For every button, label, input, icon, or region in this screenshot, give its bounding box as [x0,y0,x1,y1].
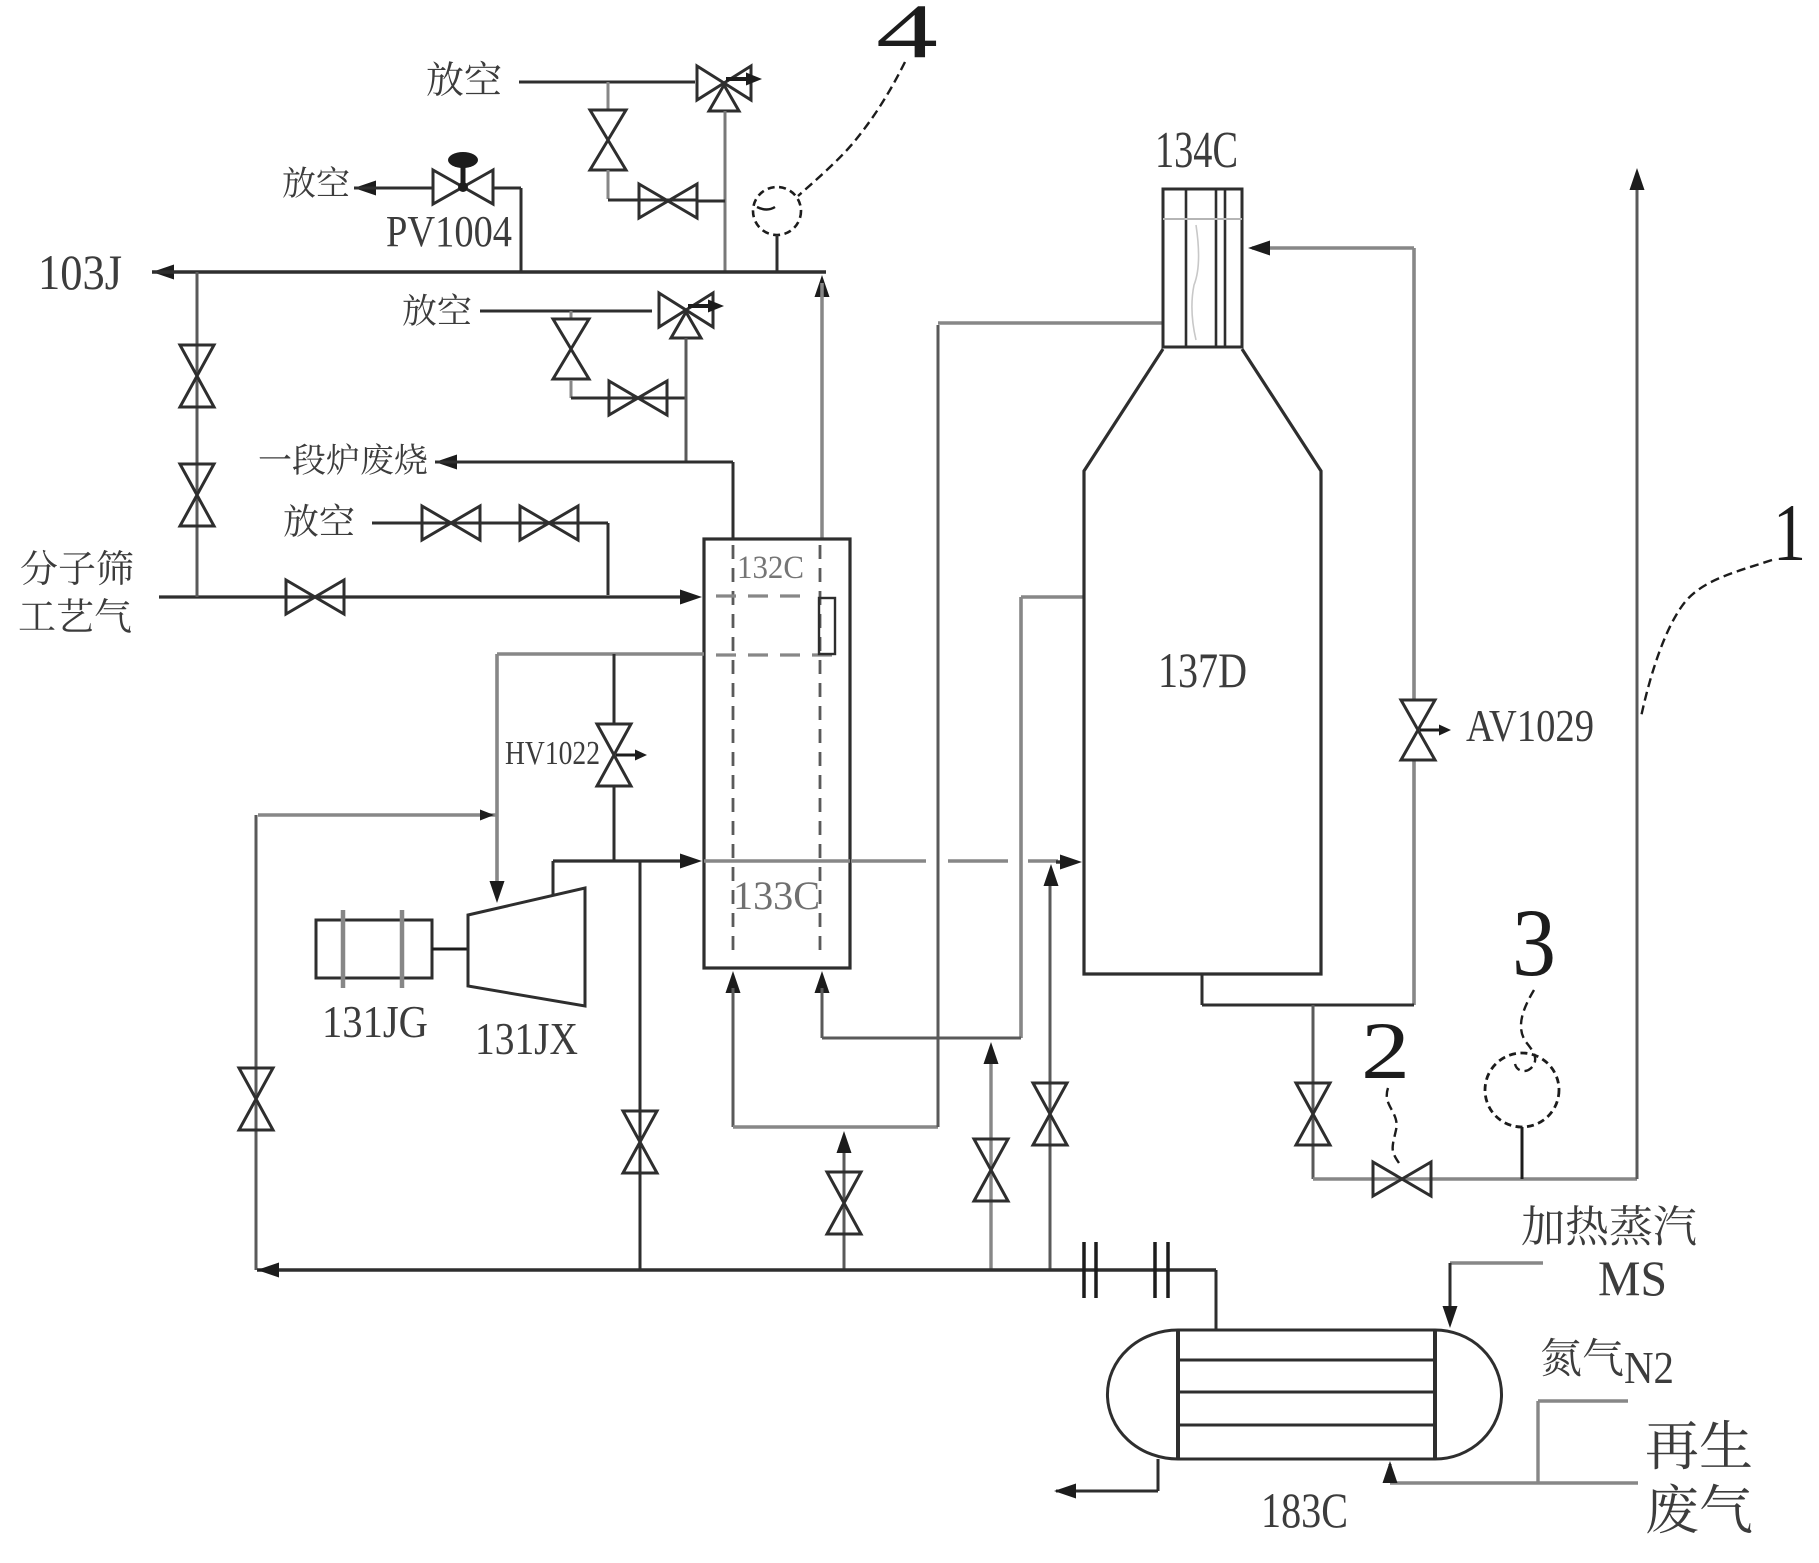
wire heated gas riser [1019,597,1023,1038]
label feiqi [1647,1484,1751,1534]
valve V9 gate [286,580,344,614]
wire vent drop [607,523,610,595]
label danqi N2 [1542,1338,1623,1377]
arrow 183C outlet [1054,1484,1076,1499]
arrow V12 up [984,1042,999,1064]
exchanger 183C shell [1107,1330,1501,1459]
break symbol 2 [1153,1242,1157,1298]
valve V8 gate [520,506,578,540]
valve V3 vertical gate [180,345,214,407]
wire heated gas top [1021,595,1084,599]
nozzle box 132C [819,598,835,654]
wire line 1 riser [1636,178,1639,1179]
svg-text:HV1022: HV1022 [505,735,600,772]
arrow feed into 137D [1056,860,1066,863]
arrow MS down [1443,1306,1458,1328]
arrow into 133C bottom right [815,971,830,993]
valve AV1029 [1401,700,1435,760]
wire 131JX drain [639,861,642,1270]
arrow suction into 131JX [490,881,505,903]
wire RV1 riser [724,111,727,272]
valve HV1022 line [613,654,616,724]
callout leader 3 [1515,990,1535,1071]
compressor 131JX [468,888,585,1006]
arrow into 183C bottom [1383,1461,1398,1483]
wire 133C bottom right drop [821,988,824,1038]
svg-text:103J: 103J [38,244,122,300]
svg-text:N2: N2 [1624,1342,1674,1393]
wire RV1 bypass [608,199,697,202]
wire suction drop [495,654,499,893]
bed dashed left [732,545,735,952]
valve V13 vertical gate [827,1172,861,1234]
wire instrument stem [776,235,779,272]
wire bottom right line [1313,1177,1637,1180]
wire regen manifold [257,1268,1216,1271]
label gongyiqi [20,598,131,633]
exchanger 183C tubes [1178,1359,1435,1362]
wire circle 3 stem [1521,1127,1524,1179]
valve V12 vertical gate [974,1139,1008,1201]
svg-text:131JX: 131JX [475,1013,578,1064]
wire 137D outlet [1201,974,1204,1005]
wire to PV1004 [354,187,433,190]
vessel 132C/133C shell [704,539,850,968]
valve V13 line [843,1143,846,1270]
wire AV1029 riser [1412,248,1416,700]
arrow line 1 up [1630,168,1645,190]
arrow V14 up [1044,864,1059,886]
wire process gas line [159,595,692,598]
relief valve RV2 [659,293,713,327]
arrow V13 up [837,1131,852,1153]
instrument circle 4 [753,187,801,235]
callout leader 1 [1641,560,1772,717]
valve V12 line [989,1052,992,1270]
valve V14 vertical gate [1033,1083,1067,1145]
wire N2 line [1538,1399,1628,1402]
wire vent line 4 [372,522,608,525]
svg-text:183C: 183C [1261,1482,1348,1538]
valve V6 gate [571,397,658,400]
valve V2 gate [639,184,697,218]
svg-text:2: 2 [1361,1005,1410,1096]
callout leader 4 [798,62,905,196]
wire RV2 riser [658,397,686,400]
label fenzishai [21,550,132,585]
wire furnace line [435,461,733,464]
wire heated gas bottom [822,1037,1021,1040]
valve V10 vertical gate [239,1068,273,1130]
motor 131JG [316,920,432,978]
wire manifold to 183C [1215,1270,1218,1330]
wire outlet drop [1312,1005,1315,1179]
svg-text:MS: MS [1598,1250,1667,1306]
svg-text:4: 4 [876,0,938,74]
valve PV1004 control [433,170,493,204]
arrow into 132C [680,590,702,605]
exchanger 134C [1163,189,1242,347]
valve V14 line [1049,872,1052,1270]
wire MS inlet [1450,1261,1543,1265]
shaft 131JG-131JX [432,948,468,951]
arrow discharge into 133C [680,854,702,869]
label vent fangkong 4 [284,503,353,536]
wire riser to vessel 132C [820,283,824,539]
wire regen waste gas line [1390,1481,1638,1484]
wire PV1004 to header [493,187,521,190]
wire discharge [552,861,555,896]
wire vent line top [519,81,695,84]
svg-text:134C: 134C [1155,122,1238,179]
arrow 103J [152,265,174,280]
svg-text:AV1029: AV1029 [1466,700,1594,751]
arrow vent left [354,181,376,196]
wire crossing gray line [704,859,850,862]
valve HV1022 [597,724,631,786]
svg-text:133C: 133C [733,873,820,918]
svg-text:3: 3 [1512,889,1556,996]
svg-text:1: 1 [1773,487,1806,578]
arrow header up [815,275,830,297]
valve V1 vertical gate [607,82,610,110]
valve V4 vertical gate [180,464,214,526]
valve V7 gate [422,506,480,540]
arrow manifold left [257,1263,279,1278]
arrow into 133C bottom left [726,971,741,993]
label zaisheng [1647,1420,1751,1469]
wire 133C to 134C horizontal [733,1125,938,1128]
svg-text:PV1004: PV1004 [386,207,512,256]
break symbol 1 [1082,1242,1086,1298]
svg-text:131JG: 131JG [322,996,428,1047]
vessel 137D [1084,349,1321,974]
wire suction top line [497,652,704,656]
wire 103J header [152,270,826,274]
arrow furnace line left [435,455,457,470]
valve V11 vertical gate [623,1111,657,1173]
svg-text:137D: 137D [1158,642,1247,698]
valve V5 vertical gate [570,311,573,318]
wire antisurge drop [255,815,258,1270]
bed dashed right [819,545,822,952]
label vent fangkong 1 [427,61,500,96]
wire 134C return [1252,246,1414,250]
wire 133C bottom left drop [732,988,735,1127]
label yiduanlu feishao [260,443,427,475]
svg-text:132C: 132C [737,550,804,586]
relief valve RV1 [697,66,751,100]
label jiarezhengqi [1522,1205,1695,1245]
bed dashed mid [716,653,833,656]
wire 183C outlet [1157,1459,1160,1491]
valve V15 vertical gate [1296,1083,1330,1145]
wire 134C feed top [938,321,1163,325]
instrument circle 3 [1485,1053,1559,1127]
valve 2 gate [1373,1162,1431,1196]
bed dashed top [716,594,809,597]
callout leader 2 [1387,1088,1399,1163]
wire antisurge line [258,813,497,817]
label vent fangkong 2 [283,166,348,198]
wire left valves riser [196,272,199,597]
label vent fangkong 3 [403,293,470,326]
wire vent line 3 [480,310,652,313]
wire riser to 134C [937,325,940,1127]
